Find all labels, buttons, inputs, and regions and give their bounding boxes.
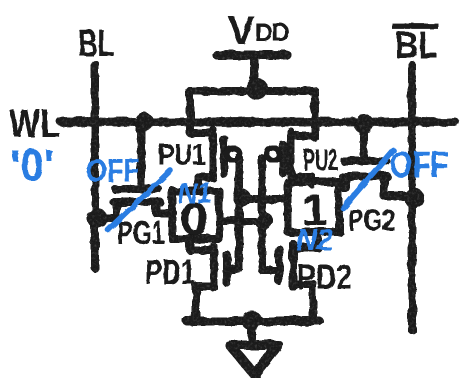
wire VDD rail with end drops [190,91,315,138]
transistor PD2 [279,232,318,321]
svg-text:PD2: PD2 [297,258,352,297]
wire ground rail [187,317,319,326]
transistor PU2 [283,132,315,184]
svg-text:PD1: PD1 [145,253,195,292]
ground symbol triangle [230,345,278,375]
wire cross-couple from PU2 gate down to PD2 gate [262,157,277,270]
annotation slash through PG2 [343,150,393,208]
node N2 value box [288,182,339,232]
junction dot ground rail [242,311,262,331]
transistor PD1 [190,239,227,321]
junction dot node N1 tap [255,212,273,230]
junction dot WL to PG2 gate [354,114,374,134]
junction dot BL to PG1 [87,208,107,228]
junction dot BLbar to PG2 [404,188,424,208]
svg-text:WL: WL [9,102,60,146]
gate bubble of PU1 [227,148,239,160]
wire N1 box to junction [219,217,264,225]
wire BL vertical [91,64,99,268]
svg-text:OFF: OFF [390,144,448,185]
overline of BLbar label [392,23,438,29]
power VDD supply bar [217,51,287,60]
svg-text:PG2: PG2 [348,204,395,237]
transistor PG2 [339,125,412,196]
transistor PG1 [95,124,173,218]
svg-text:PU1: PU1 [158,137,206,172]
svg-text:VDD: VDD [228,9,289,53]
junction dot node N2 tap [233,189,251,207]
svg-text:PU2: PU2 [303,144,338,177]
gate bubble of PU2 [267,148,279,160]
annotation slash through PG1 [108,170,170,230]
wire ground stem [248,322,256,344]
node N1 value box [172,191,219,239]
svg-text:'0': '0' [10,141,54,190]
wire junction to N2 box [242,195,288,203]
wire BLbar vertical [408,65,416,330]
svg-text:N1: N1 [178,178,212,210]
svg-text:BL: BL [395,25,438,67]
junction dot on VDD rail [246,78,268,100]
svg-text:N2: N2 [296,222,333,257]
svg-text:PG1: PG1 [117,215,165,251]
svg-text:OFF: OFF [86,152,140,189]
wire VDD stem [250,58,258,88]
wire WL horizontal rail [61,118,455,127]
svg-text:BL: BL [78,23,114,65]
transistor PU1 [190,130,224,191]
wire cross-couple from PU1 gate down to PD1 gate [230,158,239,269]
junction dot WL to PG1 gate [135,113,154,132]
